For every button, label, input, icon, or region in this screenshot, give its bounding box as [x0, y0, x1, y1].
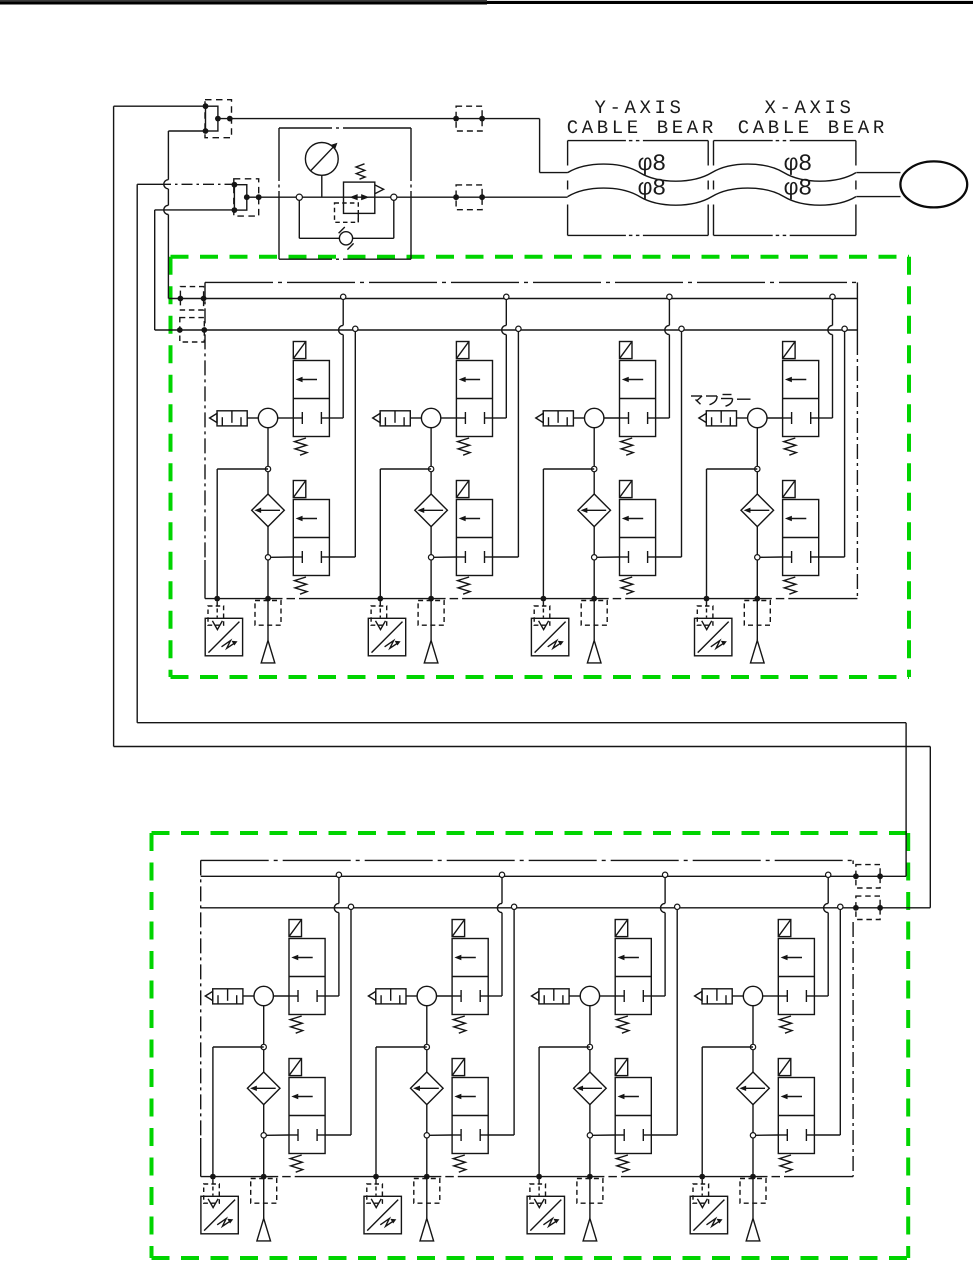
svg-text:φ8: φ8: [784, 176, 812, 203]
svg-text:X-AXIS: X-AXIS: [765, 97, 855, 119]
svg-text:φ8: φ8: [638, 151, 666, 178]
svg-text:CABLE BEAR: CABLE BEAR: [567, 117, 717, 139]
svg-text:φ8: φ8: [638, 176, 666, 203]
svg-text:CABLE BEAR: CABLE BEAR: [738, 117, 888, 139]
svg-text:φ8: φ8: [784, 151, 812, 178]
svg-text:Y-AXIS: Y-AXIS: [595, 97, 685, 119]
